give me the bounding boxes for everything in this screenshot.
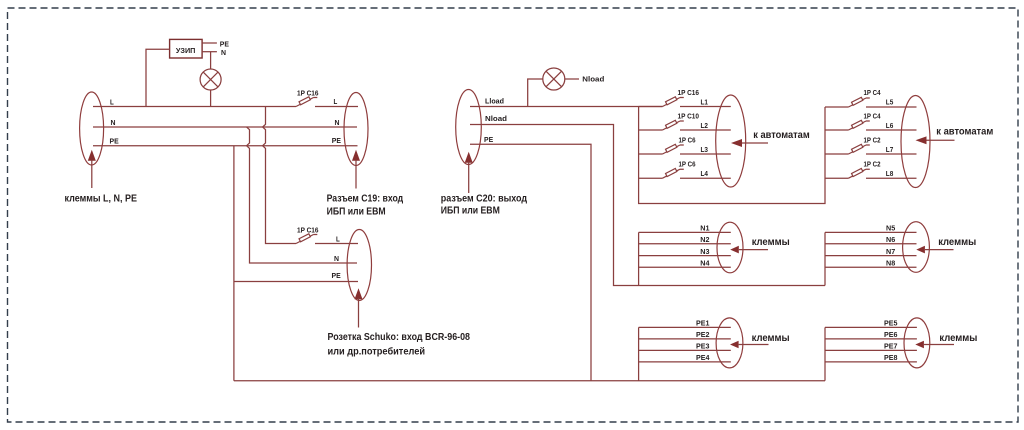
svg-text:PE2: PE2: [696, 330, 710, 339]
breaker QF5 1P C6 row L3: [639, 153, 663, 155]
arrow к автоматам (right): [916, 136, 927, 144]
svg-text:N8: N8: [886, 259, 895, 268]
svg-text:клеммы: клеммы: [939, 333, 977, 344]
wire PE (C20): [470, 144, 591, 381]
connector C20 ellipse: [456, 90, 482, 165]
svg-text:клеммы: клеммы: [752, 237, 790, 248]
svg-text:N1: N1: [700, 224, 709, 233]
ellipse group N1-N4: [717, 222, 743, 273]
wire N rows N5-N8: [825, 232, 917, 267]
wire N main: [93, 126, 357, 128]
svg-text:N2: N2: [700, 235, 709, 244]
connector C19 ellipse: [344, 93, 368, 166]
svg-text:1P C16: 1P C16: [678, 88, 700, 97]
svg-text:L1: L1: [701, 98, 709, 107]
svg-text:N: N: [221, 48, 226, 57]
svg-text:L7: L7: [886, 145, 894, 154]
wire PE bottom bus: [234, 380, 825, 382]
svg-text:PE3: PE3: [696, 342, 710, 351]
wire Nload: [470, 125, 825, 286]
lamp HL2: [528, 79, 543, 107]
wire row L3: [680, 153, 731, 155]
surge protector УЗИП box: [170, 39, 203, 58]
svg-text:N7: N7: [886, 247, 895, 256]
wire drop A (L to Schuko breaker): [263, 107, 296, 244]
wire L bus (left group) and inter-group connector: [639, 107, 825, 204]
wire PE main: [93, 145, 358, 147]
wire lamp HL2 to Nload label: [565, 78, 579, 80]
ellipse group PE5-PE8: [904, 318, 930, 368]
svg-text:L6: L6: [886, 121, 894, 130]
svg-text:клеммы: клеммы: [752, 333, 790, 344]
svg-text:Разъем C19: вход: Разъем C19: вход: [327, 194, 404, 205]
wire L main: [93, 106, 296, 108]
svg-text:PE4: PE4: [696, 353, 710, 362]
arrow into Schuko: [355, 288, 363, 299]
svg-text:к автоматам: к автоматам: [936, 127, 993, 138]
svg-text:1P C16: 1P C16: [297, 89, 319, 98]
wire row L4: [680, 177, 731, 179]
terminal block: клеммы L, N, PE: [80, 92, 104, 165]
svg-text:PE7: PE7: [884, 342, 898, 351]
svg-text:L: L: [110, 97, 114, 106]
wire row L5: [866, 106, 917, 108]
wire L after QF1 to C19: [315, 106, 358, 108]
arrow к автоматам (left): [731, 139, 742, 147]
svg-text:N3: N3: [700, 247, 709, 256]
breaker QF3 1P C16 row L1: [639, 106, 663, 108]
wire row L7: [866, 153, 917, 155]
svg-text:1P C4: 1P C4: [864, 111, 882, 120]
wire L after QF2 to Schuko: [315, 243, 358, 245]
ellipse group PE1-PE4: [716, 318, 743, 368]
svg-text:клеммы L, N, PE: клеммы L, N, PE: [65, 194, 138, 205]
svg-text:1P C2: 1P C2: [864, 160, 881, 169]
arrow клеммы N left: [730, 246, 739, 254]
arrow into клеммы L,N,PE: [88, 150, 96, 161]
breaker QF8 1P C4 row L6: [825, 129, 849, 131]
breaker QF6 1P C6 row L4: [639, 177, 663, 179]
svg-text:ИБП или ЕВМ: ИБП или ЕВМ: [441, 205, 500, 216]
svg-text:N: N: [111, 118, 116, 127]
ellipse group L5-L8: [901, 96, 930, 188]
svg-text:1P C4: 1P C4: [864, 88, 882, 97]
arrow into C20: [465, 152, 473, 163]
wire PE rows PE5-PE8: [825, 327, 917, 362]
arrow клеммы PE right: [915, 341, 924, 349]
svg-text:1P C2: 1P C2: [864, 135, 881, 144]
svg-text:PE: PE: [332, 136, 341, 145]
wire row L1: [680, 106, 731, 108]
svg-text:1P C16: 1P C16: [297, 225, 319, 234]
svg-text:УЗИП: УЗИП: [176, 46, 196, 55]
breaker QF7 1P C4 row L5: [825, 106, 849, 108]
breaker QF4 1P C10 row L2: [639, 129, 663, 131]
socket Schuko ellipse: [347, 230, 371, 301]
svg-text:1P C10: 1P C10: [678, 111, 700, 120]
breaker QF1 1P C16 (main input): [296, 97, 317, 107]
breaker QF9 1P C2 row L7: [825, 153, 849, 155]
wire N bus right group: [824, 232, 826, 285]
wire row L2: [680, 129, 731, 131]
wire УЗИП N tap: [202, 51, 217, 53]
arrow клеммы N right: [916, 246, 925, 254]
svg-text:PE5: PE5: [884, 319, 898, 328]
svg-text:N6: N6: [886, 235, 895, 244]
svg-text:ИБП или ЕВМ: ИБП или ЕВМ: [327, 206, 386, 217]
wire УЗИП PE tap: [202, 42, 217, 44]
svg-text:L4: L4: [701, 169, 709, 178]
svg-text:1P C6: 1P C6: [679, 135, 696, 144]
wire УЗИП left leg to L: [146, 49, 170, 106]
wire drop C (PE bus down): [233, 146, 235, 381]
svg-text:1P C6: 1P C6: [679, 160, 696, 169]
svg-text:PE1: PE1: [696, 319, 710, 328]
svg-text:N: N: [334, 254, 339, 263]
svg-text:N: N: [335, 118, 340, 127]
svg-text:L: L: [334, 97, 338, 106]
svg-text:L5: L5: [886, 98, 894, 107]
lamp HL1: [210, 52, 212, 107]
wire PE bus left group: [638, 327, 640, 380]
svg-text:Lload: Lload: [485, 96, 504, 105]
svg-text:к автоматам: к автоматам: [753, 130, 809, 141]
wire N rows N1-N4: [639, 232, 731, 267]
svg-text:L: L: [336, 234, 340, 243]
svg-text:клеммы: клеммы: [938, 237, 976, 248]
wire PE rows PE1-PE4: [639, 327, 731, 362]
svg-text:PE: PE: [332, 271, 341, 280]
svg-text:Nload: Nload: [485, 114, 507, 123]
arrow клеммы PE left: [730, 341, 739, 349]
breaker QF10 1P C2 row L8: [825, 177, 849, 179]
svg-text:PE8: PE8: [884, 353, 898, 362]
svg-text:N4: N4: [700, 259, 710, 268]
svg-text:Розетка Schuko: вход BCR-96-08: Розетка Schuko: вход BCR-96-08: [328, 332, 471, 343]
svg-text:или др.потребителей: или др.потребителей: [328, 346, 426, 358]
wire row L6: [866, 129, 917, 131]
wire drop B (N to Schuko N): [247, 127, 357, 263]
breaker QF2 1P C16 (Schuko): [296, 234, 317, 244]
svg-text:N5: N5: [886, 224, 895, 233]
svg-text:PE: PE: [484, 135, 493, 144]
svg-text:PE: PE: [110, 137, 119, 146]
svg-text:L2: L2: [701, 121, 709, 130]
svg-text:PE6: PE6: [884, 330, 898, 339]
svg-text:Nload: Nload: [582, 75, 604, 84]
ellipse group L1-L4: [716, 95, 746, 187]
wire row L8: [866, 177, 917, 179]
svg-text:разъем C20: выход: разъем C20: выход: [441, 194, 528, 205]
ellipse group N5-N8: [903, 222, 930, 273]
wire Schuko PE row: [234, 281, 358, 283]
wire Lload: [470, 106, 663, 108]
svg-text:L3: L3: [701, 145, 709, 154]
arrow into C19: [352, 150, 360, 161]
wire PE bus right group: [824, 327, 826, 380]
wire N bus left group: [638, 232, 640, 285]
svg-text:L8: L8: [886, 169, 894, 178]
